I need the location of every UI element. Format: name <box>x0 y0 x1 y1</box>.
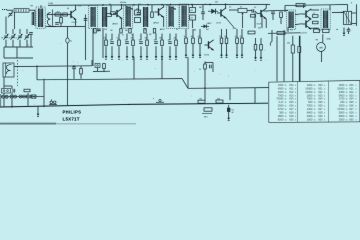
wire t8 coll up <box>265 4 267 8</box>
ground gnd b9 <box>161 54 164 59</box>
table col separator 1 <box>297 82 299 122</box>
IF transformer IF2 <box>103 7 107 27</box>
wire vert 93 <box>92 29 94 67</box>
wire ld b2 <box>11 92 13 95</box>
resistor R2 <box>60 18 63 24</box>
capacitor C7 padder <box>29 33 33 35</box>
capacitor Cb8 <box>154 42 158 44</box>
label Rc3 val <box>198 36 201 38</box>
scan speckle noise <box>2 9 353 121</box>
driver transformer TR1 <box>3 63 14 77</box>
wire c14 dn <box>67 43 69 106</box>
parts value table <box>276 83 356 122</box>
wire hang bot 3 <box>118 46 120 54</box>
junction j bus b <box>43 105 45 107</box>
bottom edge smudge faint <box>56 123 136 124</box>
label Rc2 val <box>191 36 194 38</box>
wire hang top 3 <box>118 34 120 41</box>
wire top supply rail <box>48 3 270 6</box>
label ifv2 <box>122 35 124 37</box>
label T2 type <box>113 23 118 26</box>
wire rod left drop <box>14 12 16 29</box>
ground gnd c4 <box>220 53 223 58</box>
wire W3 long <box>182 79 188 89</box>
variable capacitor C1 trimmer <box>8 11 13 17</box>
connector K1 <box>2 89 11 94</box>
wire c16 dn <box>348 31 350 34</box>
label plus mark <box>286 30 288 32</box>
label vv2 <box>109 4 111 6</box>
label value speck 16 <box>120 2 126 4</box>
wire vert 277b <box>276 36 278 82</box>
left edge smudge <box>0 94 1 107</box>
wire t6 out <box>311 9 320 11</box>
wire pot wiper dn <box>242 16 244 28</box>
wire r14b <box>260 50 262 55</box>
resistor R10 <box>190 15 196 20</box>
wire t2 coll <box>121 5 123 9</box>
resistor R12 <box>248 31 255 34</box>
resistor Rc2 <box>192 38 195 44</box>
wire hang top 10 <box>169 34 171 41</box>
label meter 5mA <box>327 38 332 41</box>
table right border <box>358 81 360 122</box>
label c13 lbl <box>205 4 207 6</box>
resistor Rb5 <box>132 40 135 46</box>
wire hang bot 11 <box>175 46 177 54</box>
model L5X71T <box>63 116 80 121</box>
capacitor C2 <box>55 23 59 25</box>
label D1 type <box>207 22 212 25</box>
label value speck 18 <box>254 7 256 9</box>
wire r2 top <box>60 15 62 18</box>
ground gnd b8 <box>155 54 158 59</box>
wire ld d <box>43 79 45 106</box>
wire lh 86 <box>4 85 12 87</box>
capacitor C8 <box>72 67 76 69</box>
wire right top link <box>330 4 348 6</box>
label gang label2 <box>9 38 11 40</box>
wire ld c <box>27 93 29 95</box>
label value speck 13 <box>341 12 344 14</box>
label value speck 3 <box>125 30 128 32</box>
wire vert 103 <box>102 28 104 58</box>
transistor T8 driver <box>257 8 266 19</box>
wire padder drop <box>30 35 32 48</box>
resistor R18 <box>296 4 305 7</box>
label v1 <box>104 29 107 31</box>
wire hcT 2 <box>192 29 194 38</box>
wire r19d <box>280 18 282 25</box>
wire hang bot 2 <box>111 46 113 54</box>
wire right edge drop <box>356 4 358 26</box>
wire ld a <box>3 77 5 89</box>
label r25 val <box>199 69 201 71</box>
label det lbl2 <box>229 7 231 9</box>
resistor R13 <box>254 45 257 51</box>
resistor R23 <box>24 89 30 92</box>
wire vert 162 <box>161 57 163 79</box>
label Rb3 value <box>117 38 119 40</box>
wire p2 dn <box>97 68 99 72</box>
label value speck 11 <box>318 30 321 32</box>
capacitor C9 <box>252 9 254 13</box>
wire vd1 <box>204 88 206 100</box>
wire emitter bus <box>48 26 85 28</box>
switch contact pair SW-c <box>19 95 26 98</box>
label value speck 8 <box>233 28 237 30</box>
label corner mark <box>351 2 353 4</box>
wire hang top 8 <box>155 34 157 41</box>
wire speaker right link <box>352 12 357 14</box>
ground gnd b2 <box>111 54 114 59</box>
switch contact pair SW-b <box>10 95 17 98</box>
loudspeaker LS1 <box>344 11 352 24</box>
table bottom border <box>269 121 360 124</box>
wire gt d <box>26 29 28 34</box>
resistor R7b <box>135 18 141 23</box>
resistor Rb3 <box>118 40 121 46</box>
wire fb l <box>284 5 286 12</box>
wire r25 up <box>204 62 206 65</box>
resistor Rb7 <box>146 40 149 46</box>
resistor Rb11 <box>175 40 178 46</box>
resistor R25 <box>204 64 207 69</box>
wire T1 base wire <box>47 14 67 16</box>
wire mix link <box>46 26 57 28</box>
resistor R3 <box>80 69 83 75</box>
label R27 val <box>314 28 318 30</box>
wire r9t <box>192 5 194 8</box>
label value speck 2 <box>111 30 113 32</box>
diode D1 detector <box>208 9 218 14</box>
IF transformer IF5 <box>167 5 180 29</box>
wire out lead <box>332 11 344 13</box>
wire trimmer drop <box>5 17 7 30</box>
IF transformer IF4 <box>144 7 148 27</box>
transistor T2 1st IF <box>113 8 122 19</box>
label T5 type <box>204 55 209 57</box>
label T4 type <box>216 23 221 25</box>
label value speck 6 <box>194 30 197 32</box>
junction d rail2 <box>121 4 123 6</box>
wire c8 drop <box>73 69 75 79</box>
label R10 val <box>191 18 194 20</box>
wire hcT 7 <box>241 29 243 38</box>
transistor T6 output a <box>302 9 311 20</box>
switch S2 <box>32 95 37 98</box>
wire main earth bus <box>0 104 130 107</box>
label value speck 17 <box>215 2 218 4</box>
wire vf a <box>292 36 294 45</box>
variable capacitor C5 gang <box>18 34 23 40</box>
wire r25 link <box>205 62 213 64</box>
resistor Rif8 <box>111 12 116 15</box>
wire r25 dn <box>204 69 206 88</box>
IF transformer IF3 <box>124 5 133 29</box>
wire vert 300b <box>299 36 301 82</box>
wire hang top 9 <box>161 34 163 41</box>
label Rb1 value <box>104 38 107 40</box>
wire r26 dn <box>103 69 105 73</box>
IF transformer IF6 det <box>180 4 189 29</box>
IF transformer TR2 interstage <box>287 10 296 30</box>
wire hang top 1 <box>105 34 107 41</box>
ground gnd c5 <box>225 53 228 58</box>
wire v262 <box>261 14 263 28</box>
label value speck 1 <box>97 30 100 32</box>
wire meter top lead <box>322 34 324 42</box>
earphone jack J1 <box>49 99 57 104</box>
label T8 type <box>257 24 262 26</box>
junction d rail7 <box>191 4 193 6</box>
wire t7 out <box>311 27 320 29</box>
label Rc1 val <box>184 36 186 38</box>
volume pot P1 <box>238 6 247 16</box>
table top border <box>269 80 360 82</box>
wire hook vert <box>271 30 273 42</box>
wire c15 drop <box>212 63 214 73</box>
wire gang gnd bus <box>4 57 33 59</box>
label T1 type <box>72 22 78 24</box>
resistor R24 <box>298 47 301 53</box>
fuse F1 <box>291 45 294 53</box>
label R9 val <box>191 10 194 12</box>
transistor T7 output b <box>302 19 311 30</box>
wire t3 emit <box>163 17 165 27</box>
capacitor C11 <box>271 12 275 14</box>
capacitor Cif2 <box>137 13 141 15</box>
wire W2 long <box>37 79 182 80</box>
meter M1 <box>317 43 326 52</box>
resistor Rif2 <box>107 14 112 17</box>
label det lbl <box>199 7 202 9</box>
ground main earth <box>37 112 40 117</box>
electrolytic C10 <box>227 105 233 116</box>
wire gt b <box>12 29 14 34</box>
junction d rail8 <box>209 4 211 6</box>
wire hcB 2 <box>192 44 194 53</box>
resistor Rc7 <box>241 38 244 44</box>
switch contact pair SW-a <box>2 95 9 98</box>
table panel <box>269 82 360 123</box>
wire hcB 3 <box>199 44 201 53</box>
wire antenna lead <box>7 9 13 11</box>
label Rb5 value <box>131 38 134 40</box>
ground gnd c7 <box>241 53 244 58</box>
capacitor Cb6 <box>139 42 143 44</box>
wire gang bus <box>4 46 33 48</box>
resistor R22 <box>277 32 285 35</box>
wire vert 133 <box>133 57 135 79</box>
wire r2 bot <box>60 23 62 27</box>
wire rod wire out <box>29 9 35 11</box>
wire main earth bus right <box>130 103 268 104</box>
label vv3 <box>138 4 141 6</box>
label ifv3 <box>131 34 133 36</box>
label value speck 15 <box>31 6 34 8</box>
wire r13t <box>255 38 257 45</box>
label value speck 9 <box>258 28 261 30</box>
gang dashed link <box>17 60 19 86</box>
resistor R1b <box>63 13 68 16</box>
wire T1 emit down <box>75 19 77 26</box>
wire ld a3 <box>3 98 5 107</box>
junction d rail1 <box>102 4 104 6</box>
junction d rail9 <box>225 4 227 6</box>
connector P2 <box>95 64 100 68</box>
capacitor C16 <box>347 29 351 31</box>
diode D2 <box>201 25 209 29</box>
wire r24 dn <box>298 53 300 82</box>
label Rb7 value <box>145 38 148 40</box>
wire hcB 7 <box>241 44 243 53</box>
ground gnd C10 <box>227 116 230 121</box>
label L3 value <box>48 3 53 5</box>
wire hcB 4 <box>221 44 223 53</box>
wire vert 85 <box>85 15 87 27</box>
ground gnd r13 <box>254 55 257 60</box>
wire af link2 <box>247 10 252 12</box>
wire hang top 2 <box>111 34 113 41</box>
table col separator 2 <box>328 81 330 122</box>
wire hcT 4 <box>221 29 223 38</box>
wire ld b <box>11 86 13 89</box>
label value speck 5 <box>176 29 178 31</box>
wire T4 emitter diagonal <box>226 18 235 28</box>
ground gnd c6 <box>236 53 239 58</box>
resistor Rb9 <box>161 40 164 46</box>
wire hang bot 1 <box>105 46 107 54</box>
ground gnd b5 <box>132 54 135 59</box>
wire hcT 1 <box>185 29 187 38</box>
wire hang top 7 <box>146 34 148 41</box>
transistor T1 mixer <box>67 9 76 20</box>
wire T1 coll up <box>75 5 77 10</box>
wire feedback top <box>285 4 330 7</box>
wire r24 up <box>298 36 300 47</box>
jack mid JP <box>153 98 164 102</box>
wire hang bot 10 <box>169 46 171 54</box>
junction j bus a <box>11 106 13 108</box>
ground gnd c1 <box>185 53 188 58</box>
wire vert 284b <box>283 30 285 82</box>
wire gnd out stub <box>343 28 345 31</box>
wire mid h <box>93 70 110 72</box>
label Rc7 val <box>240 36 243 38</box>
label Cb10 value <box>168 40 171 42</box>
ground gnd b3 <box>118 54 121 59</box>
label Cb8 value <box>154 40 157 42</box>
label Cb2 value <box>110 40 113 42</box>
wire gt c <box>19 29 21 34</box>
variable capacitor C6 gang <box>25 34 30 40</box>
resistor R8 <box>151 12 154 18</box>
label gang label <box>1 38 4 40</box>
table left border <box>268 82 270 122</box>
label T3 type <box>154 22 159 25</box>
resistor Rif4 <box>129 29 131 34</box>
junction j W1a <box>36 66 38 68</box>
label value speck 4 <box>144 30 147 32</box>
resistor Rb1 <box>105 40 108 46</box>
wire swrow <box>1 95 44 97</box>
thermistor R17 <box>202 108 212 119</box>
wire hcB 1 <box>185 44 187 53</box>
wire rail drop 303 <box>303 4 305 8</box>
wire tr2 b2 <box>295 23 302 26</box>
label Cb4 value <box>125 40 128 42</box>
wire osc divider <box>52 10 54 27</box>
ground gnd b11 <box>175 54 178 59</box>
IF transformer TR3 output <box>321 9 330 30</box>
resistor R19 <box>280 12 283 18</box>
wire ld b3 <box>11 98 13 107</box>
capacitor C15 <box>210 65 212 69</box>
bottom edge smudge <box>0 123 56 125</box>
core arrow IF5 <box>166 5 176 10</box>
wire hang bot 5 <box>132 46 134 54</box>
wire t3 coll <box>163 5 165 8</box>
wire rail ext <box>268 9 288 11</box>
capacitor C2b <box>84 19 88 21</box>
wire c13 up <box>202 4 204 12</box>
wire hang top 6 <box>140 34 142 41</box>
wire vf b <box>292 53 294 82</box>
resistor R11 <box>251 15 256 18</box>
wire v111 <box>110 5 112 12</box>
capacitor Cb2 <box>110 42 114 44</box>
resistor Rc1 <box>185 38 188 44</box>
resistor R9 <box>190 8 196 13</box>
resistor Rif1 <box>94 29 96 34</box>
wire vert92 <box>91 60 93 66</box>
wire fb r <box>329 5 331 10</box>
wire t8 emit dn <box>265 19 267 28</box>
label R15 val <box>199 99 202 101</box>
junction d rail4 <box>147 4 149 6</box>
resistor Rc5 <box>225 38 228 44</box>
transistor T5 driver <box>205 40 214 51</box>
wire hang bot 6 <box>140 46 142 54</box>
junction j W1b <box>73 65 75 67</box>
wire hang bot 9 <box>161 46 163 54</box>
ground gnd b1 <box>105 54 108 59</box>
junction j r25 <box>204 87 206 89</box>
resistor R28 <box>323 29 330 32</box>
wire W2 start drop <box>36 66 38 80</box>
wire hang bot 4 <box>126 46 128 54</box>
wire tr2 tapL <box>287 27 289 32</box>
label Rb11 value <box>174 38 177 40</box>
capacitor Cif1 <box>97 29 101 31</box>
resistor R27 <box>314 29 320 32</box>
label R16 val <box>217 99 220 101</box>
wire hcT 6 <box>236 29 238 38</box>
wire hang top 5 <box>132 34 134 41</box>
ground gnd out <box>343 31 346 36</box>
core arrow IF3 <box>123 5 133 10</box>
ground gnd r14 <box>260 55 263 60</box>
resistor R6 <box>27 95 32 98</box>
label battery 9V <box>316 40 319 42</box>
wire t4c <box>225 4 227 8</box>
wire ld a2 <box>3 93 5 96</box>
resistor Rif7 <box>153 29 155 34</box>
antenna terminal dots <box>2 9 7 10</box>
wire hang top 4 <box>126 34 128 41</box>
wire W1 long <box>14 65 92 68</box>
